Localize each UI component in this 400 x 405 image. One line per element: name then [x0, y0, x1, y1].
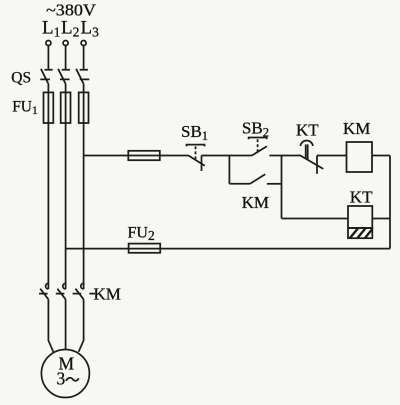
- svg-text:SB1: SB1: [181, 122, 208, 143]
- wire L1 to QS: [47, 46, 49, 69]
- terminal L2: [63, 41, 68, 46]
- wire phase 3 (QS to KM main contact): [83, 84, 85, 289]
- coil KT delay hatched box: [348, 228, 372, 238]
- contact KM main pole 1: [40, 283, 48, 299]
- KM main linkage dashed line: [39, 293, 95, 295]
- svg-text:KT: KT: [350, 188, 373, 207]
- terminal L1: [46, 41, 51, 46]
- svg-text:L2: L2: [61, 18, 79, 40]
- wire KT contact to KM coil: [317, 155, 347, 157]
- svg-text:SB2: SB2: [242, 119, 269, 140]
- switch QS pole 3: [76, 69, 88, 84]
- wire phase 2 (QS to KM main contact): [65, 84, 67, 289]
- node A (branch to KM aux): [228, 156, 230, 184]
- fuse FU1 pole 2: [61, 92, 71, 123]
- contact KT seat terminal: [316, 156, 318, 174]
- wire L3 to QS: [83, 46, 85, 69]
- wire right rail down: [389, 156, 391, 249]
- fuse control-circuit (top rail): [128, 151, 160, 160]
- contact KM main pole 3: [75, 283, 83, 299]
- pushbutton SB1 seat terminal: [201, 156, 203, 172]
- pushbutton SB1 actuator bracket: [187, 145, 205, 147]
- svg-text:KT: KT: [296, 121, 319, 140]
- contact KM auxiliary wire right: [267, 183, 282, 185]
- contact KT delay arrow dome: [300, 140, 313, 146]
- fuse FU1 pole 3: [79, 92, 89, 123]
- coil KM: [347, 142, 373, 172]
- wire control bottom rail from phase 2: [66, 248, 390, 250]
- pushbutton SB1 actuator dashed stem: [195, 146, 197, 160]
- wire KT coil to right rail: [372, 218, 390, 220]
- contact KT delay arrow shafts: [306, 144, 308, 159]
- QS linkage dashed line: [40, 78, 90, 80]
- wire L2 to QS: [65, 46, 67, 69]
- switch QS pole 2: [58, 69, 70, 84]
- wire KM coil to right rail: [372, 155, 390, 157]
- pushbutton SB2 actuator dashed stem: [257, 139, 259, 151]
- contact KT delayed NC blade: [299, 155, 323, 169]
- wire SB2 to KT contact: [269, 155, 299, 157]
- svg-text:FU1: FU1: [12, 98, 38, 117]
- svg-text:L3: L3: [81, 18, 100, 40]
- motor M circle: [41, 350, 89, 398]
- wire phase 1 (QS to KM main contact): [47, 84, 49, 289]
- svg-text:KM: KM: [242, 193, 269, 212]
- svg-text:QS: QS: [11, 70, 31, 87]
- wire branch node to KT coil branch: [281, 156, 283, 219]
- pushbutton SB1 NC blade: [188, 155, 205, 166]
- fuse FU1 pole 1: [44, 92, 54, 123]
- pushbutton SB2 NO blade: [252, 146, 267, 155]
- wire motor lead 1: [48, 299, 53, 352]
- terminal L3: [81, 41, 86, 46]
- contact KM auxiliary NO blade: [250, 174, 265, 184]
- coil KT body: [348, 206, 372, 228]
- pushbutton SB2 actuator bracket: [249, 138, 267, 140]
- svg-text:KM: KM: [343, 119, 370, 138]
- contact KM auxiliary self-hold wire left: [229, 183, 250, 185]
- wire motor lead 2: [65, 299, 67, 349]
- fuse FU2: [129, 244, 161, 253]
- wire SB1 to SB2: [202, 155, 252, 157]
- wire control top rail from phase 3: [84, 155, 188, 157]
- svg-text:3: 3: [57, 369, 66, 389]
- switch QS pole 1: [41, 69, 53, 84]
- contact KM main pole 2: [57, 283, 65, 299]
- wire motor lead 3: [79, 299, 84, 352]
- wire KT coil branch: [282, 218, 349, 220]
- svg-text:FU2: FU2: [128, 224, 155, 243]
- svg-text:L1: L1: [42, 18, 60, 40]
- svg-text:KM: KM: [94, 285, 121, 304]
